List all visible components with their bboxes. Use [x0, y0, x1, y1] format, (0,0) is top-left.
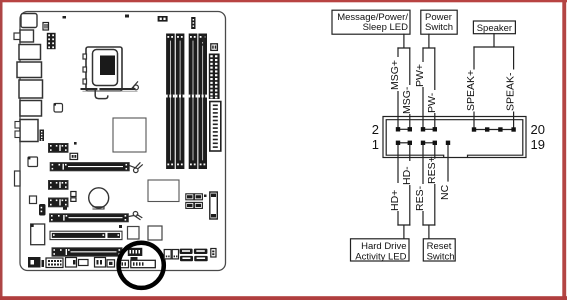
wire hd- lead — [409, 145, 411, 225]
wire res+ lead — [434, 145, 436, 225]
tiny dot above 2-pin — [74, 142, 77, 145]
audio jack tab 2 — [15, 131, 20, 138]
PCIe x1 slot 2 — [49, 181, 69, 190]
highlight circle — [119, 243, 164, 288]
PCI slot 1 — [50, 231, 122, 239]
wire msg+ lead — [397, 48, 399, 127]
bottom row: small box 5 — [79, 260, 89, 266]
CMOS battery — [89, 188, 109, 208]
bottom row: box 7 — [107, 260, 115, 267]
label PW+ — [414, 62, 428, 87]
tiny dot below mark — [202, 44, 204, 46]
back panel port 5 — [19, 80, 43, 98]
svg-text:20: 20 — [531, 122, 545, 137]
svg-text:1: 1 — [372, 137, 379, 152]
back panel port 1 — [21, 14, 37, 28]
CPU socket lever hook — [95, 91, 108, 99]
tiny dot near dimm top — [125, 15, 129, 18]
box Reset Switch — [423, 239, 455, 261]
CPU socket latch loop — [132, 82, 139, 90]
DIMM slot 3 — [189, 34, 198, 170]
small marks right of DIMMs — [202, 35, 205, 43]
small header left of f-panel — [120, 260, 129, 267]
wire pw stub — [423, 34, 435, 48]
DIMM slot 4 — [198, 34, 207, 170]
svg-text:HD+: HD+ — [389, 190, 401, 211]
back panel port 6 — [20, 101, 42, 117]
white block left bottom — [31, 224, 45, 245]
bottom row: tiny bar — [42, 260, 45, 267]
label SPEAK+ — [465, 70, 479, 112]
svg-text:MSG+: MSG+ — [389, 60, 401, 90]
speaker pins link — [474, 129, 514, 131]
PCIe x1 slot 3 — [49, 198, 69, 207]
wire res bracket — [423, 225, 435, 239]
jumper box 1 right of x1 slot 2 — [71, 192, 76, 197]
label RES- — [414, 184, 428, 211]
wire speak+ lead — [473, 47, 475, 127]
SATA connector 1 — [186, 194, 203, 200]
ATX 12V 8-pin power connector — [47, 33, 56, 49]
front panel header (highlighted) — [131, 260, 156, 267]
2-pin connector right of x1 slot 1 — [70, 153, 78, 159]
audio pin header — [40, 130, 45, 142]
left edge small connector — [15, 171, 21, 186]
jumper box 2 below — [71, 198, 76, 202]
wire pw+ lead — [422, 48, 424, 127]
wire msg stub — [398, 34, 410, 48]
small connector near top — [43, 23, 49, 31]
pins top row — [396, 127, 516, 132]
SATA port 2 — [194, 249, 208, 254]
pin pair link hd bottom — [398, 142, 410, 144]
SATA port 4 — [194, 256, 208, 261]
jumper below USB header — [131, 257, 138, 260]
floppy connector vertical — [210, 192, 218, 219]
svg-text:Activity LED: Activity LED — [355, 251, 406, 262]
back panel port 4 — [17, 62, 42, 78]
audio pin header dots — [41, 131, 42, 141]
box Power Switch — [421, 10, 457, 34]
small chip left edge — [28, 157, 38, 167]
svg-text:MSG-: MSG- — [401, 86, 413, 114]
svg-text:Speaker: Speaker — [477, 23, 512, 34]
svg-text:NC: NC — [439, 184, 451, 200]
CPU socket tab 3 — [83, 79, 87, 84]
pin pair link res bottom — [423, 142, 435, 144]
x16 slot 2 latch — [129, 212, 142, 220]
CPU socket tab 1 — [83, 54, 87, 59]
back panel audio port — [20, 120, 38, 142]
small square left — [30, 196, 37, 204]
DIMM slot 1 — [166, 34, 175, 170]
tiny dot left of chips — [119, 225, 122, 228]
bottom row: FDD hatched box — [46, 258, 63, 268]
svg-text:SPEAK+: SPEAK+ — [465, 70, 477, 111]
red frame right — [562, 0, 566, 300]
back panel port 2 tab — [14, 33, 20, 40]
wire hd+ lead — [397, 145, 399, 225]
right bottom white box pair — [164, 250, 171, 259]
CPU die — [100, 56, 115, 76]
SATA port 1 — [180, 249, 193, 254]
svg-text:19: 19 — [531, 137, 545, 152]
white notch on bar — [97, 88, 99, 91]
svg-text:PW-: PW- — [426, 92, 438, 113]
SATA connector 2 — [186, 202, 203, 208]
svg-text:RES-: RES- — [414, 185, 426, 211]
header connector outer — [383, 117, 526, 158]
wire hd bracket — [398, 225, 410, 239]
chip B above bottom row — [148, 226, 162, 240]
x16 slot 1 latch — [129, 163, 142, 173]
wire msg- lead — [409, 48, 411, 127]
label MSG- — [401, 85, 415, 114]
CPU socket bottom bar shadow — [83, 90, 137, 92]
header connector inner with key notch — [386, 120, 523, 157]
label HD- — [401, 161, 415, 185]
southbridge chip — [148, 180, 179, 202]
svg-text:SPEAK-: SPEAK- — [505, 72, 517, 111]
red frame bottom — [0, 296, 567, 300]
CPU socket tab 2 — [83, 67, 87, 72]
pins bottom row — [396, 141, 450, 145]
PCIe x1 slot 1 — [49, 144, 69, 153]
battery tab — [93, 207, 104, 209]
back panel port 3 — [19, 45, 41, 60]
small connector bars — [44, 24, 47, 29]
small header right of SATA block — [211, 249, 216, 258]
svg-text:Switch: Switch — [427, 251, 455, 262]
svg-text:RES+: RES+ — [426, 156, 438, 184]
CPU socket inner frame — [93, 50, 118, 86]
bottom row: dark connector 1 — [28, 257, 41, 268]
red frame left — [0, 0, 3, 300]
back panel port 2 — [20, 30, 34, 42]
red frame top — [0, 0, 567, 2]
svg-text:2: 2 — [372, 122, 379, 137]
wire res- lead — [422, 145, 424, 225]
SATA port 3 — [180, 256, 193, 261]
PCIe x16 slot 2 — [50, 214, 129, 222]
CPU socket bottom bar — [82, 88, 135, 90]
pin pair link pw top — [423, 128, 435, 130]
IDE connector — [210, 102, 221, 152]
ATX 24-pin power connector — [209, 54, 220, 100]
box Hard Drive Activity LED — [351, 239, 410, 261]
tiny component below battery — [63, 207, 67, 210]
small chip near audio — [54, 104, 63, 113]
PCI slot 2 — [52, 248, 122, 256]
tiny dot right of SATA — [204, 195, 207, 198]
chip corner mark — [54, 103, 56, 105]
bottom row: box 4 — [66, 258, 77, 268]
box Message/Power/Sleep LED — [332, 10, 410, 34]
svg-text:Sleep LED: Sleep LED — [363, 22, 409, 33]
PCIe x16 slot 1 — [50, 163, 129, 171]
chip A above bottom row — [128, 227, 140, 240]
USB header in circle — [128, 248, 143, 256]
audio jack tab 1 — [15, 122, 20, 129]
wire speak- lead — [513, 47, 515, 127]
svg-text:PW+: PW+ — [414, 64, 426, 87]
box Speaker — [473, 21, 515, 34]
pin pair link msg top — [398, 128, 410, 130]
4-pin CPU fan header top — [158, 16, 168, 22]
label MSG+ — [389, 57, 403, 91]
DIMM slot 2 — [176, 34, 185, 170]
tiny dot on board top — [63, 16, 67, 19]
label SPEAK- — [505, 70, 519, 112]
label PW- — [426, 90, 440, 113]
wire nc lead — [447, 145, 449, 181]
fan header vertical bar top — [191, 17, 195, 29]
northbridge chip — [113, 118, 146, 152]
label NC — [439, 182, 453, 200]
vertical header left — [39, 204, 46, 216]
wire speaker stub — [474, 34, 514, 47]
bottom row: box 6 — [95, 258, 106, 268]
wire pw- lead — [434, 48, 436, 127]
CPU socket outer — [86, 47, 122, 91]
sys fan header box — [211, 44, 218, 51]
svg-text:Switch: Switch — [425, 22, 453, 33]
label HD+ — [389, 183, 403, 211]
svg-text:HD-: HD- — [401, 166, 413, 185]
label RES+ — [426, 156, 440, 184]
motherboard outline — [20, 12, 226, 271]
